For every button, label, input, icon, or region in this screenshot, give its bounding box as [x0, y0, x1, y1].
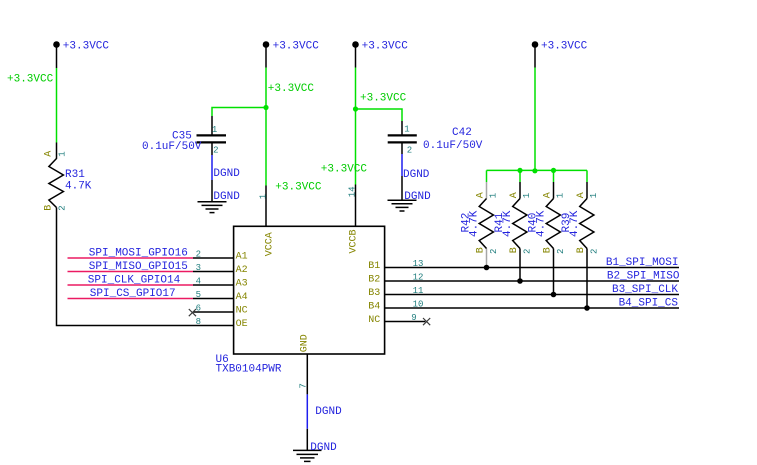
svg-text:A3: A3	[236, 279, 248, 290]
svg-text:5: 5	[196, 290, 201, 300]
svg-text:B: B	[44, 205, 55, 211]
svg-text:A: A	[44, 151, 55, 157]
svg-text:2: 2	[556, 249, 566, 254]
svg-text:1: 1	[488, 193, 498, 198]
svg-text:C42: C42	[452, 127, 472, 139]
svg-text:VCCA: VCCA	[265, 232, 276, 256]
svg-text:B: B	[476, 247, 487, 253]
svg-text:1: 1	[555, 193, 565, 198]
svg-text:A: A	[509, 192, 520, 198]
svg-text:DGND: DGND	[213, 168, 240, 180]
svg-text:11: 11	[413, 286, 424, 296]
svg-text:+3.3VCC: +3.3VCC	[273, 40, 320, 52]
svg-text:A: A	[543, 192, 554, 198]
svg-text:B3: B3	[368, 288, 380, 299]
svg-text:0.1uF/50V: 0.1uF/50V	[142, 141, 202, 153]
svg-text:1: 1	[212, 125, 217, 135]
svg-text:+3.3VCC: +3.3VCC	[275, 182, 322, 194]
svg-text:SPI_MISO_GPIO15: SPI_MISO_GPIO15	[89, 261, 188, 273]
svg-text:+3.3VCC: +3.3VCC	[268, 83, 315, 95]
svg-text:2: 2	[522, 249, 532, 254]
svg-text:B2_SPI_MISO: B2_SPI_MISO	[607, 271, 680, 283]
svg-text:DGND: DGND	[310, 442, 337, 454]
svg-text:2: 2	[213, 146, 218, 156]
svg-text:SPI_MOSI_GPIO16: SPI_MOSI_GPIO16	[89, 248, 188, 260]
svg-text:DGND: DGND	[403, 169, 430, 181]
svg-text:1: 1	[57, 151, 67, 156]
svg-text:TXB0104PWR: TXB0104PWR	[216, 364, 282, 376]
svg-text:R31: R31	[65, 169, 85, 181]
svg-text:A: A	[576, 192, 587, 198]
svg-text:2: 2	[589, 249, 599, 254]
svg-text:B3_SPI_CLK: B3_SPI_CLK	[612, 284, 678, 296]
svg-text:NC: NC	[368, 315, 380, 326]
svg-text:2: 2	[489, 249, 499, 254]
svg-text:12: 12	[413, 272, 424, 282]
svg-text:3: 3	[196, 263, 201, 273]
svg-text:1: 1	[404, 125, 409, 135]
svg-text:1: 1	[522, 193, 532, 198]
svg-text:13: 13	[413, 259, 424, 269]
svg-text:+3.3VCC: +3.3VCC	[7, 74, 54, 86]
svg-text:A: A	[476, 192, 487, 198]
svg-text:OE: OE	[236, 319, 248, 330]
svg-text:DGND: DGND	[213, 191, 240, 203]
svg-text:9: 9	[411, 313, 416, 323]
svg-text:+3.3VCC: +3.3VCC	[321, 164, 368, 176]
svg-text:14: 14	[347, 186, 357, 197]
svg-text:10: 10	[413, 299, 424, 309]
svg-text:+3.3VCC: +3.3VCC	[360, 93, 407, 105]
svg-text:DGND: DGND	[315, 406, 342, 418]
svg-text:DGND: DGND	[404, 191, 431, 203]
svg-text:0.1uF/50V: 0.1uF/50V	[423, 140, 483, 152]
svg-text:4: 4	[196, 276, 201, 286]
svg-text:B1_SPI_MOSI: B1_SPI_MOSI	[606, 257, 679, 269]
svg-text:2: 2	[196, 249, 201, 259]
svg-text:A4: A4	[236, 292, 248, 303]
svg-text:7: 7	[299, 383, 309, 388]
svg-text:VCCB: VCCB	[348, 229, 359, 253]
svg-text:SPI_CS_GPIO17: SPI_CS_GPIO17	[90, 288, 176, 300]
svg-text:1: 1	[259, 194, 269, 199]
svg-text:A1: A1	[236, 252, 248, 263]
svg-text:NC: NC	[236, 306, 248, 317]
svg-text:B: B	[509, 247, 520, 253]
svg-text:8: 8	[196, 317, 201, 327]
svg-text:4.7K: 4.7K	[469, 210, 481, 237]
svg-text:4.7K: 4.7K	[502, 210, 514, 237]
svg-text:B1: B1	[368, 261, 380, 272]
svg-text:B4_SPI_CS: B4_SPI_CS	[619, 298, 679, 310]
svg-text:6: 6	[196, 303, 201, 313]
svg-text:4.7K: 4.7K	[536, 210, 548, 237]
svg-text:GND: GND	[300, 334, 311, 352]
svg-text:+3.3VCC: +3.3VCC	[362, 40, 409, 52]
svg-text:+3.3VCC: +3.3VCC	[541, 40, 588, 52]
svg-text:B: B	[543, 247, 554, 253]
svg-text:B: B	[576, 247, 587, 253]
svg-text:B4: B4	[368, 302, 380, 313]
svg-text:2: 2	[57, 205, 67, 210]
svg-text:4.7K: 4.7K	[65, 181, 92, 193]
svg-text:2: 2	[407, 145, 412, 155]
svg-text:1: 1	[589, 193, 599, 198]
svg-text:4.7K: 4.7K	[569, 210, 581, 237]
svg-text:A2: A2	[236, 265, 248, 276]
svg-text:B2: B2	[368, 275, 380, 286]
svg-text:SPI_CLK_GPIO14: SPI_CLK_GPIO14	[88, 275, 181, 287]
svg-text:+3.3VCC: +3.3VCC	[63, 40, 110, 52]
